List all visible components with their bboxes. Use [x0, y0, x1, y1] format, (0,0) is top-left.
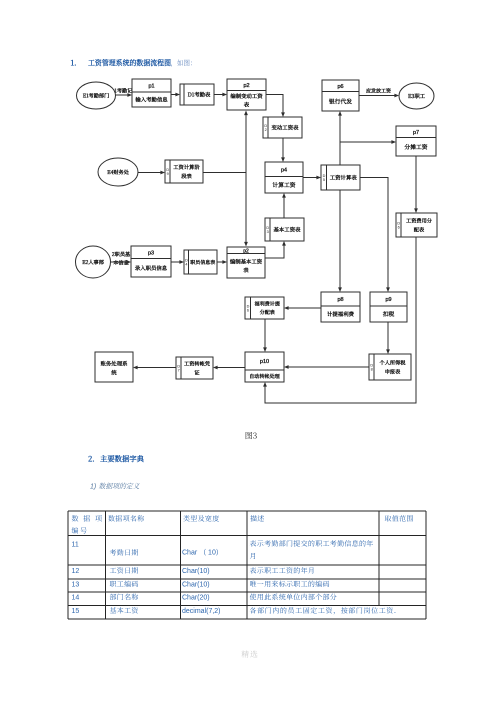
- data store D4 职员信息表: [184, 250, 217, 274]
- svg-text:p8: p8: [337, 297, 343, 303]
- wire p2 to D2 变动工资表: [266, 95, 285, 118]
- wire p9 to D8: [386, 322, 390, 354]
- heading 2. 主要数据字典: [88, 454, 144, 465]
- svg-text:月: 月: [250, 552, 257, 562]
- svg-text:段表: 段表: [181, 172, 192, 180]
- svg-text:1): 1): [90, 484, 96, 491]
- wire D5 down to p8: [338, 190, 342, 292]
- svg-text:，如图：: ，如图：: [171, 59, 197, 69]
- data store D6 工资费用分配表: [396, 213, 437, 237]
- wire p5 to D3: [265, 241, 286, 258]
- svg-text:p7: p7: [413, 130, 419, 136]
- external entity E3 职工: [399, 83, 434, 109]
- svg-text:类型及宽度: 类型及宽度: [183, 514, 220, 524]
- svg-text:取值范围: 取值范围: [385, 514, 414, 524]
- svg-text:编制变动工资: 编制变动工资: [230, 92, 263, 100]
- svg-text:Char(10): Char(10): [182, 568, 210, 575]
- svg-text:数 据 项: 数 据 项: [72, 514, 104, 524]
- data store D9 工资计算阶段表: [165, 160, 203, 183]
- table header row: [72, 514, 414, 536]
- svg-text:表: 表: [243, 266, 249, 274]
- process p3 录入职员信息: [131, 246, 171, 277]
- svg-text:输入考勤信息: 输入考勤信息: [135, 96, 168, 104]
- table row 15 基本工资: [72, 606, 402, 616]
- wire p6 to E3: [359, 94, 399, 98]
- svg-text:计提福利费: 计提福利费: [327, 310, 355, 318]
- svg-text:图3: 图3: [245, 431, 257, 442]
- svg-text:表: 表: [244, 100, 250, 108]
- data store D2 变动工资表: [263, 117, 302, 138]
- process p5 编制基本工资表: [227, 247, 265, 278]
- data store D8 个人所得税申报表: [369, 354, 411, 380]
- wire p2-p5 double arrow: [244, 111, 248, 247]
- svg-text:p2: p2: [243, 248, 249, 254]
- list item 1) 数据项的定义: [90, 482, 140, 492]
- svg-text:工资管理系统的数据流程图: 工资管理系统的数据流程图: [88, 58, 171, 69]
- svg-text:申报表: 申报表: [385, 368, 401, 375]
- svg-text:工资日期: 工资日期: [110, 566, 139, 576]
- wire E4 to 工资计算阶段表: [138, 171, 165, 175]
- svg-text:11: 11: [72, 542, 79, 549]
- svg-text:福利费计提: 福利费计提: [255, 301, 280, 308]
- svg-text:使用此系统单位内部个部分: 使用此系统单位内部个部分: [250, 593, 338, 603]
- svg-text:12: 12: [72, 568, 80, 575]
- process p10 自动转帐处理: [245, 352, 284, 382]
- svg-text:decimal(7,2): decimal(7,2): [182, 608, 221, 615]
- svg-text:职工编码: 职工编码: [110, 580, 139, 590]
- data flow label 2职员基本信息: [112, 251, 131, 267]
- svg-text:Char(20): Char(20): [182, 595, 210, 602]
- svg-text:Char(10): Char(10): [182, 582, 210, 589]
- svg-text:工资计算阶: 工资计算阶: [173, 163, 200, 171]
- svg-text:考勤日期: 考勤日期: [110, 548, 139, 558]
- wire D6 to p10 bottom loop: [263, 237, 416, 403]
- svg-text:银行代发: 银行代发: [329, 96, 352, 105]
- table row 13 职工编码: [72, 580, 330, 590]
- wire E2 to p3: [111, 260, 132, 264]
- svg-text:录入职员信息: 录入职员信息: [135, 264, 168, 272]
- svg-text:分摊工资: 分摊工资: [404, 142, 427, 151]
- wire D8 to p10: [284, 365, 369, 369]
- svg-text:p3: p3: [148, 250, 154, 256]
- data store D6b 福利费计提分配表: [245, 297, 284, 319]
- process p9 扣税: [370, 292, 407, 322]
- table row 14 部门名称: [72, 593, 338, 603]
- svg-text:p10: p10: [260, 359, 269, 365]
- svg-text:15: 15: [72, 608, 80, 615]
- data store D7 工资转帐凭证: [176, 357, 213, 379]
- svg-text:Char （ 10）: Char （ 10）: [182, 549, 223, 557]
- svg-text:p9: p9: [385, 297, 391, 303]
- svg-text:应发放工资: 应发放工资: [366, 88, 391, 95]
- svg-text:扣税: 扣税: [383, 309, 395, 318]
- svg-text:变动工资表: 变动工资表: [272, 124, 300, 132]
- wire E1 to p1: [116, 93, 133, 97]
- svg-text:编号: 编号: [72, 526, 89, 536]
- svg-text:工资费用分: 工资费用分: [406, 218, 433, 225]
- svg-text:职员信息表: 职员信息表: [190, 259, 215, 266]
- svg-text:E2人事部: E2人事部: [82, 259, 105, 266]
- svg-text:13: 13: [72, 582, 80, 589]
- table row 11 考勤日期: [72, 539, 374, 562]
- svg-text:基本工资表: 基本工资表: [274, 226, 302, 234]
- wire 福利费计提分配表 to p10: [263, 319, 267, 352]
- wire p8 to 福利费计提分配表: [284, 306, 321, 310]
- svg-text:主要数据字典: 主要数据字典: [100, 454, 144, 465]
- process p6 银行代发: [322, 80, 359, 111]
- svg-text:E1考勤部门: E1考勤部门: [83, 92, 110, 99]
- table 数据项定义表 grid: [68, 511, 426, 619]
- box 账务处理系统: [95, 352, 133, 382]
- svg-text:表示职工工资的年月: 表示职工工资的年月: [250, 566, 316, 576]
- process p8 计提福利费: [321, 292, 360, 322]
- svg-text:1．: 1．: [71, 58, 82, 69]
- title: 1. 工资管理系统的数据流程图，如图：: [71, 58, 197, 69]
- svg-text:2职员基: 2职员基: [112, 251, 131, 258]
- svg-text:p6: p6: [337, 84, 343, 90]
- wire D5 up to p6: [338, 111, 342, 165]
- wire p4 to D5: [303, 176, 321, 180]
- wire 工资计算阶段表 to vertical line: [203, 172, 246, 174]
- svg-text:账务处理系: 账务处理系: [101, 360, 128, 368]
- wire D5 right to p9: [360, 178, 390, 293]
- svg-text:个人所得税: 个人所得税: [380, 360, 407, 367]
- wire D1 to p2: [214, 93, 227, 97]
- svg-text:14: 14: [72, 595, 80, 602]
- svg-text:计算工资: 计算工资: [272, 180, 295, 189]
- wire p7 to D6: [414, 156, 418, 213]
- svg-text:编制基本工资: 编制基本工资: [230, 258, 263, 266]
- svg-text:E4财务处: E4财务处: [107, 169, 130, 176]
- svg-text:证: 证: [194, 369, 199, 376]
- svg-text:D1考勤表: D1考勤表: [188, 91, 211, 99]
- table row 12 工资日期: [72, 566, 316, 576]
- svg-text:描述: 描述: [250, 514, 265, 524]
- wire D7 to 账务处理系统: [133, 366, 176, 370]
- svg-text:工资转帐凭: 工资转帐凭: [184, 361, 210, 368]
- svg-text:数据项名称: 数据项名称: [108, 514, 145, 524]
- data store D1 考勤表: [180, 84, 214, 105]
- svg-text:唯一用来标示职工的编码: 唯一用来标示职工的编码: [250, 580, 330, 590]
- svg-text:配表: 配表: [414, 226, 425, 233]
- svg-text:分配表: 分配表: [260, 309, 275, 316]
- svg-text:p1: p1: [148, 84, 154, 90]
- wire D2 to p4: [281, 138, 285, 162]
- wire p10 to D7: [213, 366, 245, 370]
- external entity E2 人事部: [76, 246, 111, 278]
- data store D5 工资计算表: [321, 165, 360, 190]
- external entity E4 财务处: [98, 158, 138, 186]
- process p1 输入考勤信息: [132, 79, 171, 107]
- wire p3 to D4: [171, 260, 184, 264]
- svg-text:表示考勤部门提交的职工考勤信息的年: 表示考勤部门提交的职工考勤信息的年: [250, 539, 374, 549]
- svg-text:数据项的定义: 数据项的定义: [99, 482, 141, 492]
- wire D3 to p4: [282, 193, 286, 218]
- process p7 分摊工资: [396, 126, 436, 156]
- process p2 编制变动工资表: [227, 79, 266, 110]
- wire D4 to p5: [217, 260, 227, 264]
- svg-text:工资计算表: 工资计算表: [330, 174, 358, 182]
- svg-text:基本工资: 基本工资: [110, 606, 139, 616]
- svg-text:部门名称: 部门名称: [110, 593, 139, 603]
- data store D3 基本工资表: [265, 218, 304, 241]
- svg-text:精选: 精选: [241, 649, 259, 660]
- svg-text:p2: p2: [243, 83, 249, 89]
- svg-text:统: 统: [111, 369, 117, 377]
- svg-text:自动转帐处理: 自动转帐处理: [249, 373, 280, 380]
- wire p1 to D1: [171, 93, 180, 97]
- svg-text:p4: p4: [281, 167, 287, 173]
- process p4 计算工资: [265, 162, 303, 193]
- svg-text:2．: 2．: [88, 454, 100, 465]
- external entity E1 考勤部门: [77, 82, 116, 109]
- svg-text:各部门内的员工固定工资，按部门岗位工资．: 各部门内的员工固定工资，按部门岗位工资．: [250, 606, 402, 616]
- wire D5 branch to p7: [340, 140, 396, 144]
- svg-text:E3职工: E3职工: [408, 92, 426, 100]
